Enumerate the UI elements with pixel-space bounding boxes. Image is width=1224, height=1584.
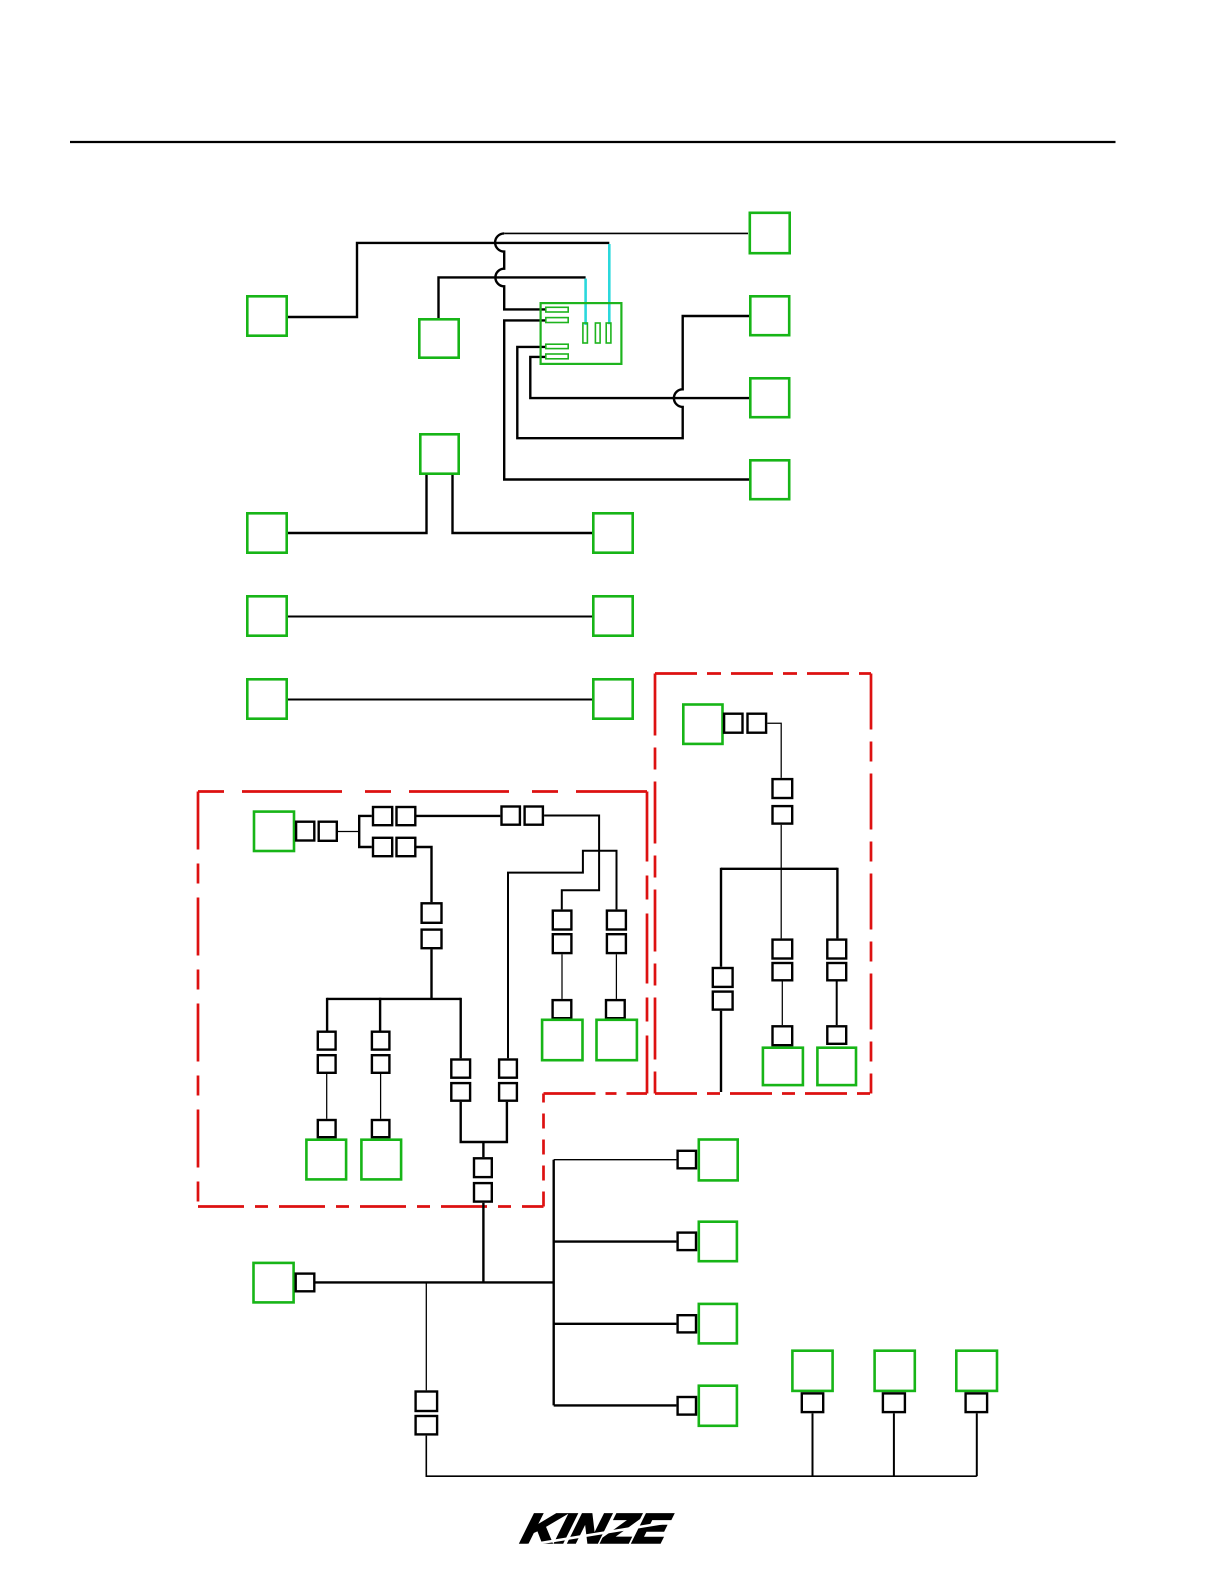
- inline connector P6c: [372, 1120, 390, 1137]
- connector C3: [750, 213, 790, 253]
- connector C12: [247, 679, 286, 718]
- wire: T junction horizontal: [721, 868, 837, 870]
- harness boundary A top edge: [198, 790, 647, 793]
- wire: Q1 to S1: [767, 723, 781, 778]
- wire: connector C2 up and over to fuse terminal V1: [439, 277, 586, 318]
- connector C23: [699, 1140, 738, 1181]
- wire: junction slot S4 to connector C5: [530, 357, 749, 398]
- wire: P4 to T junction: [430, 949, 432, 999]
- connector C18: [597, 1020, 637, 1060]
- wire: P9 down to main bus: [482, 1203, 484, 1283]
- connector C9: [593, 513, 632, 552]
- wire: branch 1: [554, 1159, 677, 1161]
- inline connector c4: [678, 1397, 696, 1415]
- harness boundary A right edge: [646, 792, 649, 1094]
- inline connector pair QR: [827, 940, 846, 959]
- connector C16: [361, 1140, 401, 1180]
- connector C8: [247, 513, 286, 552]
- connector C17: [542, 1020, 582, 1060]
- wire: branch 2: [554, 1240, 677, 1242]
- wire: S2 down through T junction to S3: [780, 825, 782, 939]
- inline connector pair P1: [296, 822, 314, 841]
- wire: merge P7 and P13 into P9: [461, 1102, 507, 1157]
- wire: distribution trunk: [553, 1160, 555, 1406]
- wire: P6 to P6c: [380, 1074, 382, 1119]
- inline connector pair P8: [502, 807, 520, 825]
- inline connector pair QL: [713, 968, 733, 987]
- wire: P2 to P8: [417, 815, 501, 817]
- inline connector pair P6: [372, 1032, 390, 1050]
- wire: P10 to P10c: [561, 954, 563, 999]
- connector C7: [420, 434, 458, 473]
- junction slot S3: [546, 344, 568, 348]
- wire: branch down to P6: [379, 998, 381, 1031]
- inline connector pair P9: [474, 1158, 492, 1177]
- connector C6: [750, 460, 789, 499]
- wire: branch 4: [554, 1404, 677, 1406]
- connector C5: [750, 378, 789, 417]
- harness boundary A bottom edge: [198, 1205, 544, 1208]
- wire: cyan drop to fuse terminal V1: [584, 279, 587, 325]
- wire: branch down to P7: [460, 998, 462, 1059]
- wire: P1 to split: [338, 831, 359, 833]
- harness boundary A notch vertical: [542, 1094, 545, 1207]
- harness boundary A notch horizontal: [544, 1092, 648, 1095]
- connector C27: [792, 1351, 832, 1391]
- connector C29: [956, 1351, 997, 1391]
- inline connector c27a: [802, 1393, 823, 1412]
- inline connector pair P14: [416, 1392, 438, 1412]
- inline connector pair S3 S4: [773, 940, 793, 959]
- connector C1: [247, 296, 286, 335]
- inline connector pair P4: [422, 903, 442, 923]
- wire: T junction horizontal: [327, 998, 461, 1000]
- connector C26: [699, 1386, 737, 1426]
- inline connector pair P2: [373, 807, 392, 825]
- wire: P5 to P5c: [326, 1074, 328, 1119]
- wire: C28 to bottom bus: [893, 1413, 895, 1476]
- harness boundary B left edge: [654, 674, 657, 1094]
- wire: split vertical with stubs to P2 and P3: [359, 816, 372, 847]
- wire: cyan drop to fuse terminal V3: [608, 244, 611, 324]
- connector C21: [817, 1048, 856, 1085]
- connector C10: [247, 596, 286, 635]
- inline connector pair Q1: [724, 714, 742, 733]
- connector C24: [699, 1222, 737, 1262]
- inline connector C22a: [296, 1274, 315, 1292]
- inline connector c1: [678, 1151, 696, 1169]
- junction slot S4: [546, 354, 568, 359]
- harness boundary B bottom edge: [655, 1092, 871, 1095]
- junction block JB: [541, 303, 622, 364]
- connector C14: [254, 812, 294, 851]
- header rule: [70, 141, 1116, 143]
- junction slot S2: [546, 318, 568, 323]
- wire: main bus: [316, 1281, 554, 1283]
- harness boundary B right edge: [870, 674, 873, 1094]
- wire: P8 over and down to P10: [544, 816, 599, 910]
- inline connector pair P3: [373, 838, 392, 856]
- junction slot S1: [546, 307, 568, 312]
- inline connector pair P11: [607, 911, 626, 930]
- wire: bus drop to P14: [425, 1282, 427, 1390]
- connector C22: [254, 1263, 294, 1303]
- connector C4: [750, 296, 789, 335]
- wire: QL down to boundary: [720, 1011, 722, 1092]
- connector C28: [875, 1351, 915, 1391]
- fuse terminal V2: [595, 323, 600, 343]
- wire: QR to S6: [836, 982, 838, 1026]
- wire: P13 up and over to P11: [508, 851, 617, 1059]
- logo slash: [513, 1521, 676, 1548]
- inline connector P11c: [606, 1000, 625, 1018]
- wire: T junction to right pair QR: [836, 868, 838, 939]
- wire: C10 to C11: [288, 616, 592, 618]
- connector C25: [699, 1304, 737, 1344]
- harness boundary B top edge: [655, 672, 871, 675]
- wire: T junction to left pair QL: [720, 868, 722, 967]
- inline connector pair S1 S2: [773, 779, 793, 798]
- connector C19: [683, 705, 722, 744]
- wire: junction slot S2 to connector C6: [504, 320, 749, 479]
- wire: connector C3 horizontal lead: [504, 232, 748, 234]
- connector C2: [419, 319, 458, 357]
- connector C20: [763, 1048, 803, 1085]
- inline connector pair P7: [451, 1060, 470, 1078]
- svg-text:KINZE: KINZE: [518, 1505, 676, 1551]
- inline connector pair P5: [318, 1032, 336, 1050]
- inline connector c3: [678, 1315, 696, 1332]
- connector C13: [593, 679, 632, 718]
- wire: connector C1 up and over to fuse terminal V3: [288, 243, 609, 317]
- inline connector S5: [773, 1026, 793, 1045]
- inline connector P5c: [318, 1120, 336, 1137]
- fuse terminal V1: [583, 323, 588, 343]
- wire: C12 to C13: [288, 699, 592, 701]
- wire: junction slot S3 to connector C4 with hop: [517, 316, 749, 438]
- connector C11: [593, 596, 632, 635]
- inline connector c29a: [966, 1393, 988, 1412]
- wire: C7 to C9: [453, 475, 593, 533]
- wire: P3 to P4: [417, 847, 432, 902]
- wire: S4 to S5: [781, 982, 783, 1026]
- inline connector S6: [827, 1026, 846, 1044]
- wire: C27 to bottom bus: [812, 1413, 814, 1476]
- wire: branch down to P5: [326, 998, 328, 1031]
- fuse terminal V3: [606, 323, 611, 343]
- wire: vertical to junction slot S1 with two hops: [495, 233, 546, 309]
- inline connector c2: [678, 1233, 696, 1251]
- wire: C29 to bottom bus: [976, 1413, 978, 1476]
- connector C15: [306, 1140, 346, 1180]
- wire: branch 3: [554, 1323, 677, 1325]
- wire: P11 to P11c: [615, 954, 617, 999]
- inline connector c28a: [883, 1393, 905, 1412]
- harness boundary A left edge: [197, 792, 200, 1207]
- inline connector pair P13: [499, 1060, 517, 1078]
- wire: C7 to C8: [288, 475, 427, 533]
- wire: P14 down to bottom bus: [426, 1436, 977, 1477]
- KINZE logo: [518, 1505, 676, 1551]
- inline connector P10c: [553, 1000, 572, 1018]
- inline connector pair P10: [553, 911, 572, 930]
